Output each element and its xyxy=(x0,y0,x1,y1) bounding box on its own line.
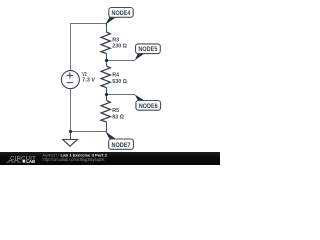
svg-text:http://circuitlab.com/c6kjg2kt: http://circuitlab.com/c6kjg2kty5qp8t xyxy=(43,157,106,162)
svg-text:LAB: LAB xyxy=(26,159,35,164)
